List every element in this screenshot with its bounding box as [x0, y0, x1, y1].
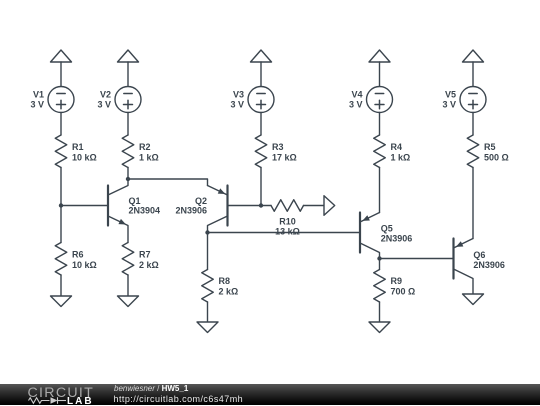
wire	[472, 168, 474, 239]
wire	[472, 62, 474, 87]
output flag	[324, 196, 335, 216]
svg-text:3 V: 3 V	[442, 100, 456, 110]
voltage source V2	[97, 87, 141, 113]
resistor R1	[55, 135, 96, 168]
wire	[472, 113, 474, 136]
resistor R5	[467, 135, 508, 168]
svg-text:V5: V5	[445, 90, 456, 100]
svg-text:R1: R1	[72, 142, 84, 152]
svg-text:2N3906: 2N3906	[175, 206, 207, 216]
node junction collector Q2	[205, 230, 209, 234]
svg-text:Q2: Q2	[195, 196, 207, 206]
wire	[60, 168, 62, 243]
wire Q2 base	[228, 205, 262, 207]
ground	[369, 322, 390, 333]
svg-text:13 kΩ: 13 kΩ	[275, 227, 300, 237]
power flag arrow above V3	[251, 50, 272, 62]
resistor R2	[122, 135, 158, 168]
svg-text:V1: V1	[33, 90, 44, 100]
wire	[207, 233, 209, 270]
svg-text:500 Ω: 500 Ω	[484, 153, 509, 163]
resistor R10	[261, 200, 324, 237]
svg-text:R7: R7	[139, 250, 151, 260]
svg-text:V4: V4	[351, 90, 362, 100]
wire	[379, 168, 381, 213]
svg-text:3 V: 3 V	[30, 100, 44, 110]
wire	[60, 113, 62, 136]
node junction collector Q5	[377, 256, 381, 260]
svg-text:R5: R5	[484, 142, 496, 152]
svg-text:R2: R2	[139, 142, 151, 152]
transistor Q6	[454, 239, 505, 295]
wire	[127, 62, 129, 87]
svg-text:R8: R8	[219, 276, 231, 286]
svg-text:10 kΩ: 10 kΩ	[72, 260, 97, 270]
svg-text:10 kΩ: 10 kΩ	[72, 153, 97, 163]
svg-text:2N3906: 2N3906	[473, 260, 505, 270]
resistor R4	[374, 135, 410, 168]
resistor R8	[202, 270, 238, 303]
resistor R3	[255, 135, 296, 168]
voltage source V4	[349, 87, 393, 113]
ground	[51, 296, 72, 307]
svg-text:1 kΩ: 1 kΩ	[391, 153, 411, 163]
wire	[379, 302, 381, 322]
svg-text:R6: R6	[72, 250, 84, 260]
wire to Q2 emitter	[128, 179, 208, 186]
svg-text:R10: R10	[279, 217, 296, 227]
wire	[260, 168, 262, 206]
resistor R7	[122, 243, 158, 276]
svg-text:V3: V3	[233, 90, 244, 100]
transistor Q5	[360, 213, 412, 259]
svg-text:3 V: 3 V	[230, 100, 244, 110]
svg-text:R4: R4	[391, 142, 403, 152]
wire	[127, 113, 129, 136]
svg-text:Q6: Q6	[473, 250, 485, 260]
svg-text:17 kΩ: 17 kΩ	[272, 153, 297, 163]
wire Q1 base	[61, 205, 108, 207]
svg-text:2 kΩ: 2 kΩ	[219, 287, 239, 297]
transistor Q2	[175, 186, 227, 233]
wire	[207, 302, 209, 322]
wire	[60, 62, 62, 87]
power flag arrow above V5	[463, 50, 484, 62]
resistor R6	[55, 243, 96, 276]
svg-text:2N3906: 2N3906	[381, 234, 413, 244]
svg-text:3 V: 3 V	[97, 100, 111, 110]
ground	[118, 296, 139, 307]
power flag arrow above V4	[369, 50, 390, 62]
voltage source V3	[230, 87, 274, 113]
wire	[60, 275, 62, 296]
svg-text:R9: R9	[391, 276, 403, 286]
svg-text:V2: V2	[100, 90, 111, 100]
wire	[379, 62, 381, 87]
svg-text:1 kΩ: 1 kΩ	[139, 153, 159, 163]
svg-text:R3: R3	[272, 142, 284, 152]
wire	[127, 275, 129, 296]
ground	[463, 294, 484, 305]
footer bar	[0, 384, 540, 406]
svg-text:2 kΩ: 2 kΩ	[139, 260, 159, 270]
svg-text:Q5: Q5	[381, 224, 393, 234]
svg-text:LAB: LAB	[67, 396, 94, 406]
wire	[379, 259, 381, 270]
wire	[127, 168, 129, 180]
svg-text:700 Ω: 700 Ω	[391, 287, 416, 297]
wire	[260, 113, 262, 136]
transistor Q1	[108, 179, 160, 243]
resistor R9	[374, 270, 415, 303]
CircuitLab logo	[0, 384, 100, 406]
wire	[379, 113, 381, 136]
wire to Q5 base	[208, 232, 361, 234]
node junction base Q1	[59, 203, 63, 207]
voltage source V1	[30, 87, 74, 113]
svg-text:2N3904: 2N3904	[129, 206, 161, 216]
power flag arrow above V2	[118, 50, 139, 62]
wire to Q6 base	[380, 258, 454, 260]
ground	[197, 322, 218, 333]
voltage source V5	[442, 87, 486, 113]
power flag arrow above V1	[51, 50, 72, 62]
svg-text:3 V: 3 V	[349, 100, 363, 110]
svg-text:Q1: Q1	[129, 196, 141, 206]
node junction collector Q1	[126, 177, 130, 181]
wire	[260, 62, 262, 87]
node junction base Q2 / R10	[259, 203, 263, 207]
